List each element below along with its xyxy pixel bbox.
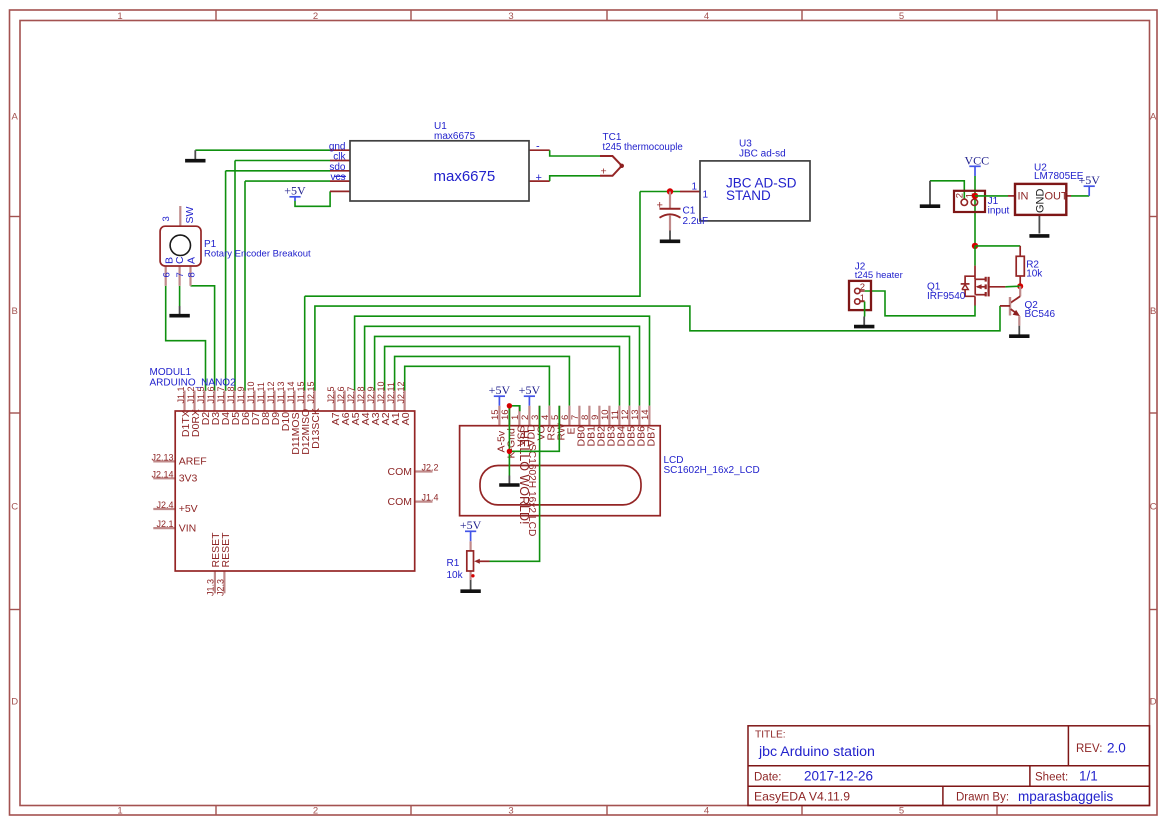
resistor R2 10k bbox=[1016, 246, 1024, 286]
wire VO to R1 wiper bbox=[490, 406, 540, 562]
svg-text:J2.8: J2.8 bbox=[356, 386, 366, 403]
C1 labels bbox=[683, 206, 709, 228]
svg-text:J2.3: J2.3 bbox=[216, 579, 226, 596]
junction at LCD pin16 bbox=[507, 403, 512, 408]
wire A2 to LCD DB4 bbox=[385, 346, 620, 405]
svg-text:max6675: max6675 bbox=[434, 131, 476, 142]
svg-text:7: 7 bbox=[175, 272, 186, 277]
svg-text:J2.13: J2.13 bbox=[151, 452, 173, 462]
svg-text:J1.5: J1.5 bbox=[196, 386, 206, 403]
wire A0 to LCD RS bbox=[405, 366, 550, 405]
svg-text:J1.10: J1.10 bbox=[246, 381, 256, 403]
transistor Q1 IRF9540 bbox=[961, 266, 1006, 306]
R2 labels bbox=[1026, 260, 1043, 280]
power flag +5V at U1 bbox=[284, 184, 306, 201]
wire K-Gnd to VSS jog bbox=[509, 406, 519, 412]
wire P1 pin7 (C) to ground bbox=[179, 286, 181, 306]
LCD labels bbox=[664, 455, 760, 476]
svg-text:1: 1 bbox=[703, 190, 709, 201]
wire J1 to U2 IN bbox=[975, 195, 1008, 197]
svg-text:5: 5 bbox=[899, 805, 904, 816]
svg-text:REV:: REV: bbox=[1076, 743, 1102, 755]
wire VCC node to Q1 source bbox=[974, 246, 976, 266]
wire A4 to LCD DB6 bbox=[365, 326, 640, 405]
svg-text:+5V: +5V bbox=[460, 518, 482, 532]
svg-text:10k: 10k bbox=[1026, 269, 1043, 280]
wire net gnd: U1.gnd to ground bbox=[195, 149, 330, 151]
wire Q1 gate to junction bbox=[1005, 285, 1020, 288]
wire +5V to U1 pin 5 bbox=[295, 191, 330, 206]
J2 labels bbox=[855, 261, 903, 281]
P1 pin labels bbox=[161, 206, 198, 277]
wire net vcs: U1.vcc to D6 bbox=[245, 181, 330, 391]
svg-text:+5V: +5V bbox=[179, 503, 198, 515]
U2 labels bbox=[1034, 163, 1084, 182]
svg-text:C: C bbox=[1150, 502, 1157, 513]
svg-text:LM7805EE: LM7805EE bbox=[1034, 171, 1084, 182]
svg-text:vcs: vcs bbox=[331, 172, 346, 183]
svg-text:J1.12: J1.12 bbox=[266, 381, 276, 403]
wire J1 pin2 to ground bbox=[930, 181, 964, 199]
svg-text:2.0: 2.0 bbox=[1107, 741, 1126, 756]
net label sdo bbox=[329, 162, 346, 173]
svg-text:DB7: DB7 bbox=[646, 426, 658, 447]
svg-text:STAND: STAND bbox=[726, 188, 771, 203]
svg-text:+5V: +5V bbox=[489, 383, 511, 397]
svg-text:J1.2: J1.2 bbox=[186, 386, 196, 403]
svg-text:+5V: +5V bbox=[1078, 173, 1100, 187]
svg-text:5: 5 bbox=[899, 11, 904, 22]
svg-text:SC1602H_16x2_LCD: SC1602H_16x2_LCD bbox=[664, 465, 760, 476]
svg-text:Date:: Date: bbox=[754, 771, 782, 783]
svg-text:max6675: max6675 bbox=[434, 168, 496, 185]
power flag +5V at R1 bbox=[460, 518, 482, 541]
svg-text:IRF9540: IRF9540 bbox=[927, 291, 966, 302]
svg-text:D13SCK: D13SCK bbox=[310, 408, 322, 449]
svg-text:J1.9: J1.9 bbox=[236, 386, 246, 403]
svg-text:1: 1 bbox=[117, 11, 122, 22]
wire net stand: U3 pin1 / C1 / D12MISO bbox=[305, 192, 680, 392]
svg-text:J2.15: J2.15 bbox=[306, 381, 316, 403]
resistor R1 10k potentiometer bbox=[467, 541, 490, 580]
svg-text:+5V: +5V bbox=[519, 383, 541, 397]
junction VCC/R2 node bbox=[972, 243, 978, 249]
wire net sdo: U1.sdo to D4 bbox=[226, 171, 330, 391]
svg-text:2: 2 bbox=[313, 805, 318, 816]
power flag VCC bbox=[964, 153, 989, 176]
svg-text:R1: R1 bbox=[447, 558, 460, 569]
connector J1 input bbox=[954, 191, 985, 212]
wire P1 pin8 (A) to D3 bbox=[191, 286, 215, 391]
svg-text:4: 4 bbox=[704, 11, 709, 22]
svg-text:A: A bbox=[186, 257, 198, 264]
svg-text:J1.15: J1.15 bbox=[296, 381, 306, 403]
LCD rotated value texts bbox=[517, 430, 537, 536]
svg-text:C: C bbox=[174, 256, 186, 264]
junction at Q1 gate / R2 / Q2 bbox=[1017, 283, 1023, 289]
ground at J2 bbox=[854, 317, 874, 327]
junction at C1/U3 bbox=[667, 188, 673, 194]
svg-text:B: B bbox=[1150, 306, 1156, 317]
svg-text:Sheet:: Sheet: bbox=[1035, 771, 1068, 783]
ground at C1 bbox=[660, 231, 680, 242]
svg-text:2.2uF: 2.2uF bbox=[683, 216, 709, 227]
svg-text:2: 2 bbox=[860, 282, 865, 293]
wire D13SCK to Q2 base bbox=[315, 306, 1000, 391]
svg-text:GND: GND bbox=[1034, 189, 1046, 214]
net label clk bbox=[333, 152, 346, 163]
svg-text:+: + bbox=[536, 172, 542, 184]
svg-text:J2.11: J2.11 bbox=[386, 382, 396, 403]
P1 labels bbox=[204, 239, 311, 260]
power flag +5V at U2 OUT bbox=[1078, 173, 1100, 196]
svg-text:J2.10: J2.10 bbox=[376, 381, 386, 403]
svg-text:SW: SW bbox=[184, 206, 196, 223]
transistor Q2 BC546 bbox=[1000, 286, 1020, 326]
net label vcs bbox=[331, 172, 347, 183]
svg-text:AREF: AREF bbox=[179, 456, 207, 468]
LCD pin numbers and names bbox=[490, 409, 657, 458]
title block bbox=[748, 726, 1150, 806]
svg-text:J1.6: J1.6 bbox=[206, 386, 216, 403]
svg-text:A: A bbox=[12, 112, 19, 123]
svg-text:t245 heater: t245 heater bbox=[855, 270, 903, 281]
op-amp U1 max6675 body bbox=[330, 141, 550, 201]
svg-text:J1.13: J1.13 bbox=[276, 381, 286, 403]
svg-text:C: C bbox=[11, 502, 18, 513]
svg-text:t245 thermocouple: t245 thermocouple bbox=[603, 142, 683, 153]
wire net clk: U1.clk to D5 bbox=[235, 161, 330, 392]
svg-text:14: 14 bbox=[640, 409, 651, 420]
TC1 labels bbox=[603, 132, 683, 153]
svg-text:1/1: 1/1 bbox=[1079, 769, 1098, 784]
svg-text:J2.5: J2.5 bbox=[326, 386, 336, 403]
svg-text:+5V: +5V bbox=[284, 184, 306, 198]
svg-text:JBC ad-sd: JBC ad-sd bbox=[739, 148, 786, 159]
ground at U1 gnd bbox=[185, 150, 205, 161]
svg-text:LCD: LCD bbox=[664, 455, 684, 466]
svg-text:+: + bbox=[657, 200, 663, 212]
svg-text:SC1602H 16x2 LCD: SC1602H 16x2 LCD bbox=[526, 444, 537, 536]
svg-text:J2.14: J2.14 bbox=[151, 469, 173, 479]
svg-text:mparasbaggelis: mparasbaggelis bbox=[1018, 789, 1114, 804]
MODUL1 labels bbox=[150, 367, 237, 388]
ground at P1 bbox=[169, 306, 189, 316]
svg-text:J1.7: J1.7 bbox=[216, 386, 226, 403]
svg-text:A0: A0 bbox=[400, 412, 412, 425]
Q2 labels bbox=[1025, 300, 1056, 320]
svg-text:C1: C1 bbox=[683, 206, 696, 217]
wire K-Gnd down to ground bbox=[508, 406, 510, 476]
U3 labels bbox=[692, 138, 797, 203]
svg-text:COM: COM bbox=[388, 466, 413, 478]
svg-text:OUT: OUT bbox=[1045, 190, 1069, 202]
wire U1 - to TC1 bbox=[550, 150, 600, 156]
svg-text:COM: COM bbox=[388, 496, 413, 508]
wire U2 OUT to +5V bbox=[1071, 195, 1089, 197]
junction at J1 pin1 bbox=[972, 193, 978, 199]
svg-text:J2.7: J2.7 bbox=[346, 386, 356, 403]
svg-text:J2.9: J2.9 bbox=[366, 386, 376, 403]
svg-text:J2.6: J2.6 bbox=[336, 386, 346, 403]
net label gnd bbox=[329, 141, 346, 152]
svg-text:EasyEDA V4.11.9: EasyEDA V4.11.9 bbox=[754, 790, 850, 804]
svg-text:J1.11: J1.11 bbox=[256, 382, 266, 403]
wire J2 pin1 to ground bbox=[864, 302, 866, 317]
junction at LCD gnd bbox=[507, 449, 512, 454]
MODUL1 pin numbers and names bbox=[151, 381, 438, 596]
svg-text:3: 3 bbox=[508, 11, 513, 22]
svg-text:Rotary Encoder Breakout: Rotary Encoder Breakout bbox=[204, 249, 311, 260]
svg-text:+: + bbox=[601, 165, 607, 177]
connector U3 JBC AD-SD STAND bbox=[680, 161, 810, 221]
svg-text:ARDUINO_NANO2: ARDUINO_NANO2 bbox=[150, 377, 237, 388]
svg-text:J1.8: J1.8 bbox=[226, 386, 236, 403]
connector J2 t245 heater bbox=[849, 281, 871, 310]
wire VCC node to R2 bbox=[975, 245, 1020, 247]
wire RW to gnd net bbox=[509, 406, 559, 452]
wire Q1 drain to J2 pin2 bbox=[865, 291, 975, 316]
svg-text:1: 1 bbox=[692, 182, 698, 193]
ground at R1 bbox=[460, 580, 480, 591]
ground at U2 bbox=[1029, 234, 1049, 238]
wire A3 to LCD DB5 bbox=[375, 336, 630, 405]
svg-text:D: D bbox=[11, 697, 18, 708]
svg-text:BC546: BC546 bbox=[1025, 309, 1056, 320]
ground at LCD bbox=[499, 476, 519, 486]
wire A1 to LCD E bbox=[395, 356, 570, 405]
svg-text:3: 3 bbox=[161, 216, 172, 221]
svg-text:J2.12: J2.12 bbox=[396, 381, 406, 403]
svg-text:J1.14: J1.14 bbox=[286, 381, 296, 403]
power flag +5V at LCD VDD bbox=[519, 383, 541, 406]
svg-text:J2.2: J2.2 bbox=[422, 463, 439, 473]
wire P1 pin6 (B) to D2 bbox=[166, 286, 206, 391]
Q1 labels bbox=[927, 282, 966, 303]
ground at J1 bbox=[920, 181, 940, 206]
svg-text:3: 3 bbox=[508, 805, 513, 816]
svg-text:J2.4: J2.4 bbox=[156, 500, 173, 510]
svg-text:8: 8 bbox=[187, 272, 198, 277]
rotary encoder P1 bbox=[160, 206, 201, 286]
svg-text:-: - bbox=[536, 141, 540, 153]
svg-text:J1.3: J1.3 bbox=[206, 579, 216, 596]
svg-text:4: 4 bbox=[704, 805, 709, 816]
svg-text:A: A bbox=[1150, 112, 1157, 123]
ground at Q2 bbox=[1009, 326, 1029, 337]
svg-text:3V3: 3V3 bbox=[179, 473, 198, 485]
svg-text:TITLE:: TITLE: bbox=[755, 730, 786, 741]
wire A5 to LCD DB7 bbox=[355, 316, 650, 406]
wire U1 + to TC1 bbox=[550, 176, 600, 181]
svg-text:input: input bbox=[988, 205, 1010, 216]
svg-text:RESET: RESET bbox=[220, 532, 232, 568]
capacitor C1 bbox=[657, 192, 681, 231]
power flag +5V at LCD pin15 bbox=[489, 383, 511, 406]
svg-text:D: D bbox=[1150, 697, 1157, 708]
svg-text:2017-12-26: 2017-12-26 bbox=[804, 769, 873, 784]
svg-text:6: 6 bbox=[161, 272, 172, 277]
svg-text:J2.1: J2.1 bbox=[156, 519, 173, 529]
LCD SC1602H_16x2_LCD bbox=[460, 406, 661, 516]
R1 labels bbox=[447, 558, 464, 581]
svg-text:J1.1: J1.1 bbox=[176, 386, 186, 403]
thermocouple TC1 bbox=[600, 156, 624, 177]
svg-text:B: B bbox=[12, 306, 18, 317]
svg-text:VIN: VIN bbox=[179, 522, 197, 534]
svg-text:10k: 10k bbox=[447, 570, 464, 581]
regulator U2 LM7805EE bbox=[1008, 184, 1071, 234]
module MODUL1 ARDUINO_NANO2 bbox=[153, 391, 432, 594]
J1 labels bbox=[988, 196, 1010, 216]
U1 labels bbox=[434, 121, 542, 185]
svg-text:1: 1 bbox=[117, 805, 122, 816]
svg-text:J1.4: J1.4 bbox=[422, 493, 439, 503]
svg-text:2: 2 bbox=[313, 11, 318, 22]
wire VCC down through J1 bbox=[974, 176, 976, 246]
svg-text:IN: IN bbox=[1018, 190, 1029, 202]
svg-text:VCC: VCC bbox=[964, 153, 989, 167]
svg-text:Drawn By:: Drawn By: bbox=[956, 792, 1009, 804]
svg-text:jbc Arduino station: jbc Arduino station bbox=[758, 744, 875, 760]
